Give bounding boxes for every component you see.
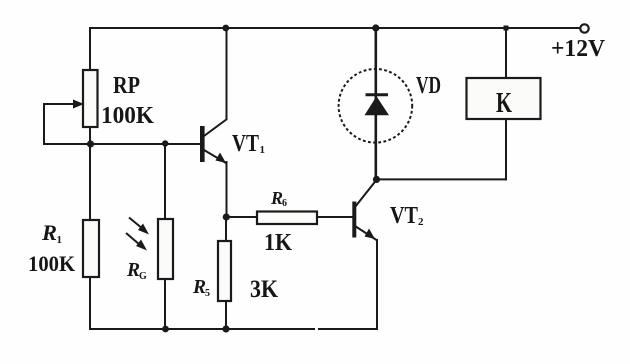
svg-text:R: R bbox=[192, 276, 206, 298]
junction left node RP bottom bbox=[87, 140, 94, 147]
resistor R5 (3K) bbox=[218, 241, 231, 301]
wire base node line bbox=[44, 143, 200, 145]
junction bottom rail R5 bbox=[222, 325, 229, 332]
wire R1 bottom to bottom rail bbox=[89, 277, 91, 329]
potentiometer RP bbox=[73, 70, 98, 127]
label R5 bbox=[192, 276, 210, 299]
wire K branch top bbox=[505, 28, 507, 78]
junction top rail / VT1 collector bbox=[222, 25, 229, 32]
wire wiper arm horizontal bbox=[44, 103, 76, 105]
svg-text:R: R bbox=[41, 220, 57, 245]
wire VT2 emitter vertical bbox=[376, 240, 378, 329]
svg-text:100K: 100K bbox=[28, 251, 75, 276]
wire left rail top segment bbox=[89, 28, 91, 70]
light arrow 2 bbox=[126, 233, 147, 251]
diode VD bbox=[339, 69, 413, 143]
terminal +12V bbox=[551, 24, 606, 62]
svg-text:RP: RP bbox=[113, 73, 140, 99]
wire bottom rail left part bbox=[90, 328, 314, 330]
svg-text:K: K bbox=[496, 87, 512, 119]
svg-text:6: 6 bbox=[282, 198, 287, 209]
wire R6 to VT2 base bbox=[317, 216, 352, 218]
svg-text:1: 1 bbox=[260, 144, 266, 156]
resistor R1 bbox=[83, 220, 99, 277]
wire VT1 collector vertical bbox=[226, 28, 228, 119]
label VT2 bbox=[390, 203, 424, 229]
wire R5 bottom lead bbox=[225, 301, 227, 329]
wire top rail +12V bbox=[90, 27, 580, 29]
svg-text:VD: VD bbox=[416, 73, 441, 99]
light arrow 1 bbox=[129, 218, 149, 235]
svg-text:2: 2 bbox=[418, 216, 424, 228]
svg-text:VT: VT bbox=[390, 203, 418, 229]
svg-text:1: 1 bbox=[57, 234, 63, 246]
label RG bbox=[126, 259, 147, 282]
svg-text:1K: 1K bbox=[264, 230, 292, 256]
wire RP bottom to node bbox=[89, 127, 91, 220]
svg-text:VT: VT bbox=[232, 131, 259, 157]
wire wiper return vertical bbox=[43, 104, 45, 144]
wire bottom rail right part bbox=[319, 328, 377, 330]
svg-text:+12V: +12V bbox=[551, 36, 606, 62]
label R1 bbox=[41, 220, 62, 246]
wire K branch bottom bbox=[505, 119, 507, 179]
wire emitter node to R6 bbox=[227, 216, 258, 218]
wire K bottom to collector node bbox=[377, 178, 507, 180]
wire photoresistor bottom lead bbox=[164, 279, 166, 329]
svg-text:G: G bbox=[139, 271, 147, 282]
junction VT2 collector node bbox=[373, 176, 380, 183]
junction bottom rail RG bbox=[162, 326, 169, 333]
label VT1 bbox=[232, 131, 265, 157]
wire photoresistor top lead bbox=[164, 144, 166, 219]
transistor VT2 bbox=[352, 181, 376, 241]
svg-text:3K: 3K bbox=[250, 276, 278, 303]
photoresistor RG bbox=[158, 219, 173, 279]
wire R5 top lead bbox=[225, 217, 227, 241]
junction node RG top bbox=[162, 140, 168, 146]
wire VD branch vertical bbox=[374, 28, 377, 179]
svg-text:5: 5 bbox=[205, 288, 210, 299]
wire VT1 emitter vertical bbox=[226, 162, 228, 217]
junction top rail / VD bbox=[372, 24, 379, 31]
svg-text:100K: 100K bbox=[101, 103, 154, 129]
svg-text:R: R bbox=[126, 259, 140, 281]
relay K bbox=[467, 78, 541, 119]
label R6 bbox=[270, 188, 287, 209]
resistor R6 (1K) bbox=[257, 212, 317, 225]
junction top rail / K bbox=[504, 26, 509, 31]
transistor VT1 bbox=[200, 119, 227, 163]
junction VT1 emitter node bbox=[223, 213, 230, 220]
